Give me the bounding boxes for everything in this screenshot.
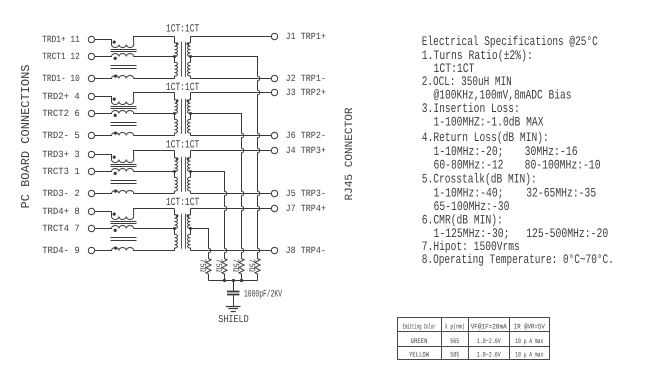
svg-text:SHIELD: SHIELD — [218, 314, 248, 326]
svg-text:TRCT1 12: TRCT1 12 — [42, 51, 80, 62]
wire T1 secondary top to J1 — [191, 36, 272, 38]
terminal J1 TRP1+ — [271, 33, 277, 39]
svg-text:75Ω: 75Ω — [246, 259, 256, 272]
choke L4 core bars — [111, 222, 137, 241]
terminal J7 TRP4+ — [271, 205, 277, 211]
svg-text:1000pF/2KV: 1000pF/2KV — [244, 288, 282, 300]
svg-text:TRD2+ 4: TRD2+ 4 — [42, 91, 80, 102]
svg-text:TRD4- 9: TRD4- 9 — [42, 245, 80, 256]
choke L4 polarity dots — [113, 213, 118, 250]
wire TRCT3 pin through choke L3 middle winding to T3 primary center tap — [95, 169, 175, 172]
svg-text:10 μ A max: 10 μ A max — [515, 338, 543, 346]
terminal TRD3- pin 2 — [88, 190, 94, 196]
svg-text:1-100MHZ:-1.0dB MAX: 1-100MHZ:-1.0dB MAX — [434, 115, 544, 130]
wire TRD1- pin through choke L1 bottom winding to T1 primary bottom — [95, 76, 175, 79]
transformer T4 secondary winding — [188, 209, 191, 251]
terminal TRD2+ pin 4 — [88, 93, 94, 99]
wire T3 secondary center tap down to resistor R3, hopping over wires — [191, 172, 227, 259]
transformer T2 secondary winding — [188, 93, 191, 136]
svg-text:TRCT4 7: TRCT4 7 — [42, 223, 80, 234]
choke L2 core bars — [111, 107, 137, 126]
wire TRCT4 pin through choke L4 middle winding to T4 primary center tap — [95, 226, 175, 229]
svg-text:TRD3+ 3: TRD3+ 3 — [42, 149, 80, 160]
svg-text:TRD4+ 8: TRD4+ 8 — [42, 206, 80, 217]
wire T2 secondary center tap down to resistor R2, hopping over wires — [191, 114, 244, 259]
terminal J2 TRP1- — [271, 75, 277, 81]
terminal TRCT2 pin 6 — [88, 110, 94, 116]
LED characteristics table — [398, 318, 550, 360]
svg-text:1.8~2.6V: 1.8~2.6V — [477, 352, 502, 360]
transformer T3 primary winding — [175, 151, 178, 194]
svg-text:4.Return Loss(dB MIN):: 4.Return Loss(dB MIN): — [422, 130, 549, 145]
transformer T2 polarity dots and center-tap junction dots — [173, 99, 192, 115]
terminal J5 TRP3- — [271, 190, 277, 196]
svg-text:TRD1- 10: TRD1- 10 — [42, 73, 80, 84]
svg-text:585: 585 — [450, 352, 459, 360]
choke L1 core bars — [111, 50, 137, 69]
wire T2 secondary bottom to J6 — [191, 135, 272, 137]
svg-text:80-100MHz:-10: 80-100MHz:-10 — [525, 158, 601, 173]
wire T4 secondary center tap down to resistor R4, hopping over wires — [191, 229, 211, 259]
svg-text:J8 TRP4-: J8 TRP4- — [286, 245, 326, 256]
svg-text:RJ45 CONNECTOR: RJ45 CONNECTOR — [344, 107, 356, 200]
terminal J4 TRP3+ — [271, 147, 277, 153]
svg-text:VF@IF=20mA: VF@IF=20mA — [471, 323, 508, 332]
svg-text:75Ω: 75Ω — [197, 259, 207, 272]
svg-text:PC BOARD CONNECTIONS: PC BOARD CONNECTIONS — [19, 65, 33, 209]
transformer T1 primary winding — [175, 37, 178, 79]
transformer T4 core — [182, 214, 186, 249]
resistor R1 75 Ohm — [255, 259, 260, 281]
svg-text:TRCT3 1: TRCT3 1 — [42, 166, 80, 177]
choke L1 polarity dots — [113, 41, 118, 78]
svg-text:TRD3- 2: TRD3- 2 — [42, 188, 80, 199]
terminal TRCT4 pin 7 — [88, 225, 94, 231]
svg-text:TRD1+ 11: TRD1+ 11 — [42, 34, 80, 45]
svg-text:J4 TRP3+: J4 TRP3+ — [286, 145, 327, 156]
svg-text:TRD2- 5: TRD2- 5 — [42, 130, 80, 141]
wire TRD3- pin through choke L3 bottom winding to T3 primary bottom — [95, 191, 175, 194]
wire T1 secondary bottom to J2 — [191, 78, 272, 80]
wire TRD3+ pin through choke L3 top winding to transformer T3 primary top — [95, 151, 175, 163]
junction dots on ground bus — [223, 279, 243, 282]
svg-text:5.Crosstalk(dB MIN):: 5.Crosstalk(dB MIN): — [422, 171, 537, 186]
transformer T2 primary winding — [175, 93, 178, 136]
terminal J3 TRP2+ — [271, 89, 277, 95]
svg-text:565: 565 — [450, 338, 459, 346]
svg-text:λ p(nm): λ p(nm) — [445, 323, 465, 332]
svg-text:GREEN: GREEN — [411, 338, 428, 346]
svg-text:1CT:1CT: 1CT:1CT — [166, 197, 199, 209]
svg-text:IR @VR=5V: IR @VR=5V — [514, 323, 546, 332]
svg-text:J7 TRP4+: J7 TRP4+ — [286, 203, 327, 214]
transformer T4 polarity dots and center-tap junction dots — [173, 214, 192, 230]
terminal TRD2- pin 5 — [88, 132, 94, 138]
transformer T1 core — [182, 42, 186, 77]
transformer T3 secondary winding — [188, 151, 191, 194]
svg-text:60-80MHz:-12: 60-80MHz:-12 — [434, 158, 504, 173]
terminal TRD4- pin 9 — [88, 247, 94, 253]
capacitor C1 1000pF/2KV — [227, 281, 240, 306]
terminal J8 TRP4- — [271, 247, 277, 253]
choke L2 polarity dots — [113, 98, 118, 135]
svg-text:32-65MHz:-35: 32-65MHz:-35 — [526, 186, 596, 201]
svg-text:J1 TRP1+: J1 TRP1+ — [286, 31, 327, 42]
svg-text:1CT:1CT: 1CT:1CT — [166, 82, 199, 94]
ground symbol SHIELD — [226, 307, 241, 312]
terminal TRD1+ pin 11 — [88, 36, 94, 42]
svg-text:J5 TRP3-: J5 TRP3- — [286, 188, 326, 199]
terminal J6 TRP2- — [271, 132, 277, 138]
wire ground bus joining resistor bottoms — [209, 280, 258, 282]
wire TRD4+ pin through choke L4 top winding to transformer T4 primary top — [95, 209, 175, 220]
svg-text:1.8~2.6V: 1.8~2.6V — [477, 338, 502, 346]
terminal TRD1- pin 10 — [88, 75, 94, 81]
wire TRCT1 pin through choke L1 middle winding to T1 primary center tap — [95, 54, 175, 57]
transformer T3 polarity dots and center-tap junction dots — [173, 157, 192, 173]
transformer T1 polarity dots and center-tap junction dots — [173, 42, 192, 58]
resistor R4 75 Ohm — [206, 259, 211, 281]
wire T4 secondary top to J7 — [191, 208, 272, 210]
transformer T1 secondary winding — [188, 37, 191, 79]
wire TRD4- pin through choke L4 bottom winding to T4 primary bottom — [95, 248, 175, 251]
wire TRD2+ pin through choke L2 top winding to transformer T2 primary top — [95, 93, 175, 105]
transformer T2 core — [182, 99, 186, 134]
svg-text:125-500MHz:-20: 125-500MHz:-20 — [526, 226, 608, 241]
wire T3 secondary top to J4 — [191, 150, 272, 152]
svg-text:75Ω: 75Ω — [213, 259, 223, 272]
resistor R2 75 Ohm — [239, 259, 244, 281]
svg-text:TRCT2 6: TRCT2 6 — [42, 108, 80, 119]
svg-text:10 μ A max: 10 μ A max — [515, 352, 543, 360]
choke L3 polarity dots — [113, 156, 118, 193]
terminal TRD3+ pin 3 — [88, 151, 94, 157]
svg-text:75Ω: 75Ω — [230, 259, 240, 272]
wire TRD1+ pin through choke L1 top winding to transformer T1 primary top — [95, 37, 175, 48]
wire T2 secondary top to J3 — [191, 92, 272, 94]
svg-text:J3 TRP2+: J3 TRP2+ — [286, 87, 327, 98]
svg-text:Emitting Color: Emitting Color — [403, 323, 436, 332]
svg-text:J2 TRP1-: J2 TRP1- — [286, 73, 326, 84]
wire TRD2- pin through choke L2 bottom winding to T2 primary bottom — [95, 133, 175, 136]
svg-text:1CT:1CT: 1CT:1CT — [166, 24, 199, 36]
terminal TRD4+ pin 8 — [88, 208, 94, 214]
choke L3 core bars — [111, 165, 137, 184]
transformer T3 core — [182, 157, 186, 192]
svg-text:1CT:1CT: 1CT:1CT — [166, 140, 199, 152]
wire T4 secondary bottom to J8 — [191, 250, 272, 252]
terminal TRCT3 pin 1 — [88, 168, 94, 174]
svg-text:8.Operating Temperature: 0°C~7: 8.Operating Temperature: 0°C~70°C. — [422, 252, 614, 267]
wire T3 secondary bottom to J5 — [191, 193, 272, 195]
wire TRCT2 pin through choke L2 middle winding to T2 primary center tap — [95, 111, 175, 114]
svg-text:YELLOW: YELLOW — [409, 352, 430, 360]
wire T1 secondary center tap down to resistor R1, hopping over wires — [191, 57, 260, 259]
resistor R3 75 Ohm — [222, 259, 227, 281]
svg-text:J6 TRP2-: J6 TRP2- — [286, 130, 326, 141]
transformer T4 primary winding — [175, 209, 178, 251]
svg-text:Electrical Specifications @25°: Electrical Specifications @25°C — [422, 34, 598, 49]
terminal TRCT1 pin 12 — [88, 53, 94, 59]
